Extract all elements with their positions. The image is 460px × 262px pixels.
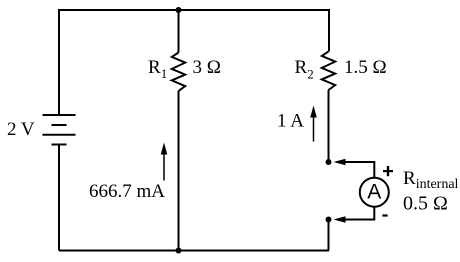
label - polarity: [382, 214, 387, 216]
svg-text:0.5 Ω: 0.5 Ω: [403, 193, 448, 215]
svg-text:A: A: [367, 181, 381, 204]
node: top junction of R1 branch: [176, 7, 182, 13]
label + polarity: [383, 166, 393, 176]
wire ammeter top lead with probe arrowhead: [334, 159, 375, 178]
svg-text:1 A: 1 A: [277, 111, 304, 132]
wire left lower (battery - down to bottom wire): [58, 145, 60, 251]
svg-text:666.7 mA: 666.7 mA: [89, 181, 165, 202]
wire top (battery + to R1/R2 tops): [59, 9, 329, 11]
node: bottom junction of R1 branch: [176, 248, 182, 254]
wire bottom: [59, 250, 329, 252]
current arrow 1 A (pointing up): [310, 106, 317, 142]
svg-text:1.5 Ω: 1.5 Ω: [344, 57, 387, 78]
ammeter A1 (circle with A): [360, 178, 389, 207]
wire right branch lower (bottom meter node to bottom wire): [328, 220, 330, 251]
wire middle branch upper (top junction to R1): [178, 10, 180, 53]
node: ammeter top connection: [326, 159, 332, 165]
wire left upper (top wire down to battery +): [58, 9, 60, 115]
wire ammeter bottom lead with probe arrowhead: [334, 207, 375, 223]
resistor R2: [322, 52, 335, 91]
node: ammeter bottom connection: [326, 217, 332, 223]
current arrow 666.7 mA (pointing up): [161, 143, 168, 181]
svg-text:3 Ω: 3 Ω: [193, 57, 221, 78]
svg-text:2 V: 2 V: [7, 119, 35, 140]
resistor R1: [172, 53, 185, 92]
wire middle branch lower (R1 to bottom junction): [178, 91, 180, 251]
battery B1 (2 V source): [43, 115, 76, 145]
wire right branch middle (R2 down to top meter node): [328, 90, 330, 162]
wire right branch upper (top wire corner down to R2): [328, 9, 330, 52]
